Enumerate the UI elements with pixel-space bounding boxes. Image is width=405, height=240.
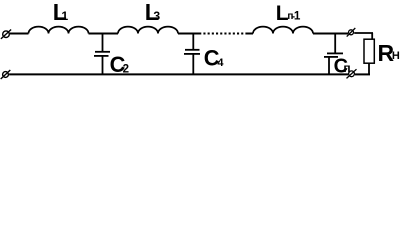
wire top rail: Ln-1 to output terminal — [313, 33, 348, 35]
wire top rail: L3 to dots — [178, 33, 201, 35]
inductor L1 — [29, 27, 89, 34]
inductor L3 — [118, 27, 178, 34]
capacitor C2 plates — [95, 51, 110, 53]
capacitor C4 plates — [185, 49, 200, 51]
output terminal bottom-right — [347, 69, 357, 78]
wire top rail: terminal to corner — [354, 32, 373, 34]
wire down to resistor top — [371, 33, 373, 39]
input terminal bottom-left — [1, 70, 11, 79]
capacitor C2 top lead — [102, 34, 104, 52]
capacitor Cn bottom lead — [328, 57, 330, 75]
svg-text:4: 4 — [217, 57, 224, 69]
capacitor C2 bottom lead — [102, 56, 104, 75]
wire bottom rail: left — [9, 73, 348, 75]
svg-text:3: 3 — [153, 9, 160, 23]
capacitor Cn top lead — [334, 34, 336, 54]
dotted continuation of top rail — [203, 33, 245, 35]
wire resistor bottom to bottom rail — [368, 63, 370, 74]
svg-text:Н: Н — [392, 50, 400, 62]
wire top rail: terminal to L1 — [10, 33, 29, 35]
wire bottom rail: right — [355, 73, 370, 75]
capacitor C4 bottom lead — [192, 54, 194, 75]
output terminal top-right — [347, 28, 356, 37]
wire top rail: dots to Ln-1 — [246, 33, 254, 35]
svg-text:п: п — [343, 61, 350, 75]
wire top rail: L1 to L3 — [89, 33, 119, 35]
resistor RH — [364, 39, 374, 63]
capacitor C4 top lead — [192, 34, 194, 50]
svg-text:1: 1 — [61, 9, 68, 23]
svg-text:1: 1 — [294, 9, 301, 22]
capacitor Cn plates — [327, 52, 343, 54]
input terminal top-left — [1, 30, 11, 39]
inductor Ln-1 — [253, 27, 313, 34]
